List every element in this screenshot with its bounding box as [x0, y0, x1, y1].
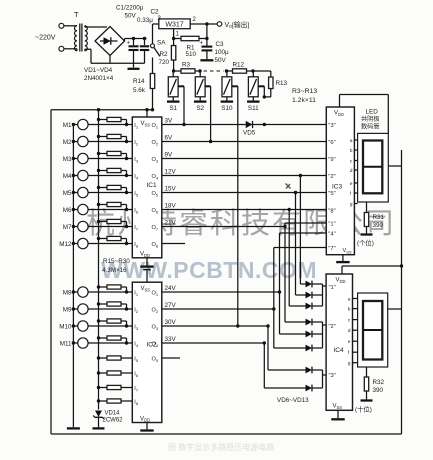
power ground: [133, 63, 135, 67]
svg-text:g: g: [350, 203, 353, 208]
svg-text:O8: O8: [152, 242, 159, 248]
svg-text:M3: M3: [63, 156, 72, 163]
svg-text:27V: 27V: [165, 302, 177, 309]
resistor R25 4.3M: [99, 320, 108, 322]
svg-text:C1/2200μ: C1/2200μ: [116, 5, 144, 12]
svg-text:d: d: [348, 328, 351, 334]
svg-text:2CW62: 2CW62: [103, 418, 124, 424]
svg-text:M12: M12: [59, 241, 72, 248]
svg-text:M7: M7: [63, 224, 72, 231]
svg-text:"3": "3": [328, 123, 335, 129]
svg-text:R14: R14: [133, 78, 145, 85]
svg-text:M2: M2: [63, 139, 72, 146]
node ADJ chain: [172, 69, 175, 72]
svg-text:图 数字显示多路稳压电源电路: 图 数字显示多路稳压电源电路: [168, 442, 274, 452]
zener VD14 2CW62: [95, 411, 102, 418]
svg-text:18V: 18V: [165, 202, 177, 209]
svg-text:VD1~VD4: VD1~VD4: [84, 67, 113, 74]
svg-text:b: b: [350, 148, 353, 154]
3V line with diode VD5: [162, 124, 246, 126]
30V line: [162, 325, 268, 327]
bottom rail: [51, 433, 402, 435]
AC input terminals ~220V: [59, 23, 64, 28]
diode VD12: [304, 369, 306, 371]
junction R13 S11 tap: [263, 95, 266, 98]
riser 21V to diode VD9: [284, 227, 286, 323]
svg-text:5.6k: 5.6k: [133, 87, 146, 94]
svg-text:e: e: [350, 182, 353, 187]
svg-text:R12: R12: [233, 62, 245, 69]
svg-text:(十位): (十位): [355, 405, 372, 414]
svg-text:1.2k×11: 1.2k×11: [292, 97, 316, 104]
svg-text:O2: O2: [152, 140, 159, 146]
svg-text:d: d: [350, 168, 353, 174]
svg-text:O3: O3: [152, 157, 159, 163]
svg-text:"5": "5": [328, 191, 335, 197]
svg-text:"2": "2": [328, 174, 335, 180]
resistor R12: [227, 70, 233, 72]
svg-text:R31: R31: [373, 214, 385, 221]
svg-text:720: 720: [159, 59, 170, 66]
switch S2: [199, 71, 201, 77]
riser 12V to diode VD6: [299, 176, 301, 285]
svg-text:共阴极: 共阴极: [361, 115, 380, 123]
svg-text:50V: 50V: [125, 13, 137, 20]
resistor R17 4.3M: [99, 153, 108, 155]
wire bridge bottom to ground rail: [109, 56, 111, 64]
svg-text:VSS: VSS: [141, 286, 151, 292]
svg-text:M6: M6: [63, 207, 72, 214]
ground of S2: [194, 100, 207, 102]
left border wire: [50, 110, 52, 434]
svg-text:24V: 24V: [165, 285, 177, 292]
resistor R31 390: [366, 202, 368, 213]
riser 33V net to diode VD13: [263, 343, 265, 388]
svg-text:30V: 30V: [165, 319, 177, 326]
capacitor C3 100u 50V: [206, 24, 208, 46]
svg-text:M9: M9: [63, 307, 72, 314]
svg-text:R2: R2: [160, 51, 169, 58]
svg-text:S11: S11: [248, 105, 259, 112]
wire secondary bottom to ground rail: [84, 49, 86, 51]
svg-text:VD14: VD14: [105, 411, 121, 417]
svg-text:a: a: [350, 139, 353, 144]
bridge rectifier VD1~VD4: [95, 27, 125, 56]
dashed omitted chain: [204, 70, 224, 72]
LED digit tens: [358, 293, 388, 367]
IC1 touch controller: [132, 117, 162, 258]
IC1 Vdd ground stub: [146, 258, 148, 266]
svg-text:C2: C2: [151, 9, 160, 16]
wire to R13: [253, 70, 271, 72]
IC4 display driver tens: [326, 274, 352, 410]
IC4 Vdd stub: [341, 266, 343, 274]
tap wire of S1: [178, 85, 184, 87]
21V line: [162, 226, 285, 228]
IC2 touch controller: [132, 282, 162, 422]
IC4 Vss ground: [337, 410, 339, 418]
svg-text:~220V: ~220V: [35, 35, 56, 42]
svg-text:6V: 6V: [165, 134, 174, 141]
svg-text:0.33μ: 0.33μ: [137, 17, 153, 24]
IC3 display driver units: [326, 107, 354, 255]
resistor R20 4.3M: [99, 204, 108, 206]
wire W317 output to terminal: [190, 23, 217, 25]
resistor R14 5.6k: [152, 58, 154, 74]
wire LED1 to right rail: [388, 165, 401, 167]
wire bridge output: [124, 39, 126, 42]
svg-text:R3: R3: [182, 62, 191, 69]
svg-text:21V: 21V: [165, 219, 177, 226]
svg-text:O3: O3: [152, 325, 159, 331]
12V line: [162, 175, 326, 177]
svg-text:R15~R30: R15~R30: [103, 258, 130, 265]
IC3 Vdd stub and top rail: [339, 95, 341, 108]
IC2 Vdd ground stub: [146, 423, 148, 430]
resistor R18 4.3M: [99, 170, 108, 172]
svg-text:"3": "3": [329, 373, 336, 379]
ground of S10: [221, 100, 234, 102]
svg-text:M10: M10: [59, 324, 72, 331]
ground of S1: [167, 100, 180, 102]
svg-text:M5: M5: [63, 190, 72, 197]
ground of C3: [200, 59, 213, 61]
switch SA: [151, 44, 155, 48]
switch S1: [172, 71, 174, 77]
resistor R21 4.3M: [99, 221, 108, 223]
diode VD10: [304, 333, 306, 335]
ground of pad bus: [67, 427, 80, 429]
IC2 Vss stub: [146, 271, 148, 283]
svg-text:M1: M1: [63, 122, 72, 129]
resistor R16 4.3M: [99, 136, 108, 138]
svg-text:T: T: [74, 10, 79, 19]
svg-text:VD6~VD13: VD6~VD13: [277, 397, 309, 404]
svg-text:50V: 50V: [215, 57, 227, 64]
resistor R23 4.3M: [99, 286, 108, 288]
svg-text:15V: 15V: [165, 185, 177, 192]
svg-text:VSS: VSS: [333, 404, 343, 410]
IC3 Vss ground: [342, 255, 344, 261]
switch S11: [252, 71, 254, 77]
svg-text:"8": "8": [328, 208, 335, 214]
resistor R29 4.3M: [99, 387, 108, 389]
svg-text:VSS: VSS: [141, 121, 151, 127]
svg-text:100μ: 100μ: [215, 49, 230, 56]
svg-text:9V: 9V: [165, 151, 174, 158]
svg-text:e: e: [348, 340, 351, 345]
cathode bus group 2: [322, 322, 324, 348]
svg-text:O2: O2: [152, 308, 159, 314]
IC1 Vss stub: [146, 110, 148, 117]
LED digit units: [358, 133, 389, 202]
scan blemish mark: [286, 184, 291, 189]
output terminal Vo: [217, 22, 222, 27]
svg-text:IC1: IC1: [147, 182, 158, 189]
svg-text:O7: O7: [152, 225, 159, 231]
svg-text:2N4001×4: 2N4001×4: [84, 75, 114, 82]
svg-text:[输出]: [输出]: [232, 20, 249, 29]
svg-text:510: 510: [186, 51, 197, 58]
svg-text:VDD: VDD: [140, 416, 150, 422]
svg-text:数码管: 数码管: [361, 123, 380, 131]
33V line: [162, 342, 264, 344]
resistor R22 4.3M: [99, 238, 108, 240]
svg-text:S1: S1: [169, 105, 177, 112]
diode VD6: [304, 283, 306, 285]
svg-text:"6": "6": [328, 140, 335, 146]
ground of S11: [247, 100, 259, 102]
svg-text:M4: M4: [63, 173, 72, 180]
svg-text:4.3M×16: 4.3M×16: [102, 267, 127, 274]
svg-text:33V: 33V: [165, 336, 177, 343]
svg-text:VDD: VDD: [334, 111, 344, 117]
riser 27V to pin 7 and diode VD11: [273, 248, 275, 349]
riser 24V to pin 4 and diode VD10: [279, 233, 281, 334]
svg-text:"7": "7": [328, 246, 335, 252]
bias bus vertical: [98, 110, 100, 410]
wire secondary top to bridge: [84, 26, 86, 27]
9V line: [162, 158, 326, 160]
svg-text:R32: R32: [373, 379, 385, 386]
resistor R28 4.3M: [99, 372, 108, 374]
resistor R30 4.3M: [99, 400, 108, 402]
svg-text:R13: R13: [276, 80, 288, 87]
O5 stub: [162, 357, 180, 359]
svg-text:(个位): (个位): [357, 238, 374, 247]
riser 30V to diode VD12: [267, 326, 269, 370]
diode VD8: [304, 305, 306, 307]
resistor R3: [174, 70, 181, 72]
svg-text:b: b: [348, 307, 351, 313]
tap wire of S2: [205, 85, 211, 87]
15V line: [162, 192, 326, 194]
27V line: [162, 308, 274, 310]
riser 18V to diode VD8: [288, 210, 290, 307]
svg-text:SA: SA: [157, 40, 166, 47]
svg-text:O4: O4: [152, 342, 159, 348]
resistor R24 4.3M: [99, 303, 108, 305]
svg-text:S2: S2: [196, 105, 204, 112]
diode VD13: [304, 387, 306, 389]
svg-text:"1": "1": [329, 285, 336, 291]
resistor R2 720: [171, 46, 175, 61]
switch S10: [226, 71, 228, 77]
svg-text:"4": "4": [328, 231, 335, 237]
svg-text:VDD: VDD: [140, 252, 150, 258]
svg-text:"9": "9": [328, 157, 335, 163]
svg-text:C3: C3: [216, 41, 225, 48]
wire LED2 to right rail: [388, 308, 402, 310]
svg-text:S10: S10: [221, 105, 233, 112]
svg-text:VDD: VDD: [336, 278, 346, 284]
svg-text:O6: O6: [152, 208, 159, 214]
svg-text:12V: 12V: [165, 168, 177, 175]
diode VD11: [304, 347, 306, 349]
svg-text:g: g: [348, 362, 351, 367]
ground of VD14: [93, 427, 105, 429]
cathode bus group 1: [322, 284, 324, 306]
svg-text:M8: M8: [63, 290, 72, 297]
svg-text:M11: M11: [60, 341, 72, 348]
resistor R15 4.3M: [99, 119, 108, 121]
O8 stub: [162, 243, 185, 245]
18V line: [162, 209, 326, 211]
svg-text:IC3: IC3: [332, 184, 343, 191]
resistor R13: [269, 77, 273, 89]
svg-text:390: 390: [373, 387, 384, 394]
svg-text:a: a: [348, 298, 351, 303]
6V line: [162, 141, 326, 143]
resistor R26 4.3M: [99, 337, 108, 339]
riser 15V to diode VD7: [295, 193, 297, 296]
diode VD9: [304, 321, 306, 323]
svg-text:3V: 3V: [165, 117, 174, 124]
svg-text:IC4: IC4: [334, 347, 345, 354]
tap wire of S10: [232, 85, 238, 87]
resistor R27 4.3M: [99, 357, 108, 359]
diode VD7: [304, 294, 306, 296]
resistor R1 510: [173, 29, 175, 46]
svg-text:VSS: VSS: [343, 248, 352, 254]
svg-text:"2": "2": [329, 324, 336, 330]
cathode bus group 3: [322, 370, 324, 388]
svg-text:O5: O5: [152, 357, 159, 363]
svg-text:VD5: VD5: [243, 130, 256, 137]
svg-text:LED: LED: [366, 109, 379, 116]
svg-text:O4: O4: [152, 174, 159, 180]
resistor R32 390: [366, 367, 368, 377]
right rail: [401, 150, 403, 434]
svg-text:O1: O1: [152, 123, 159, 129]
touch pad common bus: [72, 125, 74, 428]
tap wire of S11: [258, 85, 264, 87]
svg-text:"1": "1": [328, 221, 335, 227]
svg-text:390: 390: [373, 222, 384, 229]
resistor R19 4.3M: [99, 187, 108, 189]
svg-text:R3~R13: R3~R13: [292, 88, 317, 95]
24V line: [162, 291, 280, 293]
regulator W317: [159, 19, 190, 29]
svg-text:W317: W317: [165, 21, 183, 28]
svg-text:O5: O5: [152, 191, 159, 197]
top bias rail: [51, 109, 153, 111]
svg-text:O1: O1: [152, 291, 159, 297]
